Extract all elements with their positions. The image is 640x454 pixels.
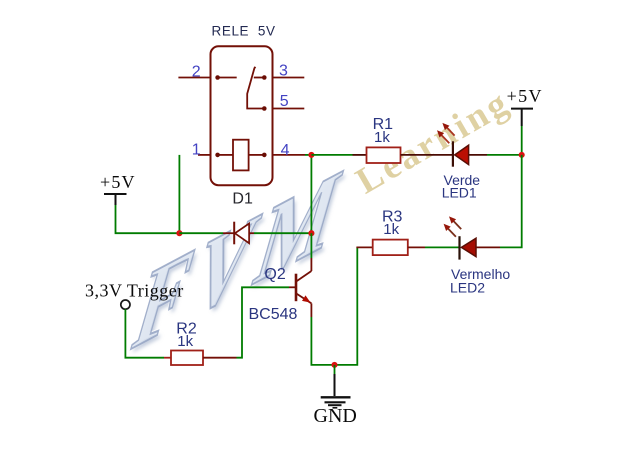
LED2 Vermelho <box>460 236 501 259</box>
ground symbol <box>321 365 351 408</box>
wire node D down to node B <box>310 155 312 233</box>
relay inner pin dots <box>215 75 266 157</box>
svg-text:+5V: +5V <box>100 172 136 192</box>
svg-text:5: 5 <box>280 93 289 110</box>
svg-text:BC548: BC548 <box>249 306 298 323</box>
wire R1 to LED1 <box>401 154 453 156</box>
svg-text:1k: 1k <box>383 221 399 238</box>
wire Q2 emitter down to node C row <box>311 247 357 365</box>
wire LED1 to node E <box>487 154 522 156</box>
+5V supply left symbol <box>104 194 127 205</box>
node A junction dot <box>176 230 182 236</box>
wire node A up to relay pin 1 <box>178 155 180 233</box>
LED2 emission arrows <box>444 216 462 236</box>
node E junction dot <box>519 152 525 158</box>
svg-text:+5V: +5V <box>507 86 543 106</box>
wire node D to R1 <box>311 154 352 156</box>
svg-text:D1: D1 <box>232 191 253 208</box>
transistor Q2 BC548 <box>289 258 311 317</box>
diode D1 <box>223 222 254 245</box>
svg-text:3,3V Trigger: 3,3V Trigger <box>85 281 184 301</box>
wire node E down to LED2 <box>500 155 522 248</box>
svg-text:Q2: Q2 <box>264 266 285 283</box>
svg-text:2: 2 <box>192 64 201 81</box>
wire R2 to Q2 base <box>237 287 290 357</box>
relay switch contact (pins 2-3-5) <box>218 67 265 109</box>
wire trigger to R2 <box>125 309 164 358</box>
resistor R2 <box>164 351 237 366</box>
svg-text:LED2: LED2 <box>450 279 485 295</box>
wire R3 to LED2 <box>425 246 460 248</box>
+5V supply right symbol <box>511 109 533 126</box>
watermark FVM <box>121 140 361 378</box>
svg-text:1k: 1k <box>374 129 390 146</box>
node C junction dot <box>331 362 337 368</box>
relay RELE 5V body <box>211 46 273 185</box>
wire +5V right to node E <box>521 126 523 155</box>
wire diode to node B <box>254 232 311 234</box>
node B junction dot <box>308 230 314 236</box>
resistor R3 <box>356 240 425 256</box>
LED1 Verde <box>453 141 487 166</box>
svg-text:RELE 5V: RELE 5V <box>212 23 276 38</box>
svg-text:LED1: LED1 <box>442 185 477 201</box>
svg-text:GND: GND <box>314 405 357 427</box>
node D junction dot (pin4/R1/collector) <box>305 152 314 158</box>
LED1 emission arrows <box>437 123 455 143</box>
svg-text:4: 4 <box>281 142 290 159</box>
watermark Learning <box>349 81 518 204</box>
wire node B down to Q2 collector <box>310 233 312 258</box>
svg-text:1k: 1k <box>177 333 193 350</box>
relay coil (pins 1-4) <box>218 140 265 171</box>
3,3V trigger terminal <box>121 300 130 309</box>
relay pin stubs external <box>178 78 305 155</box>
wire node A to diode D1 <box>179 232 223 234</box>
wire +5V left down to node A <box>116 205 180 233</box>
resistor R1 <box>353 147 401 163</box>
svg-text:3: 3 <box>279 62 288 79</box>
svg-text:1: 1 <box>192 141 201 158</box>
